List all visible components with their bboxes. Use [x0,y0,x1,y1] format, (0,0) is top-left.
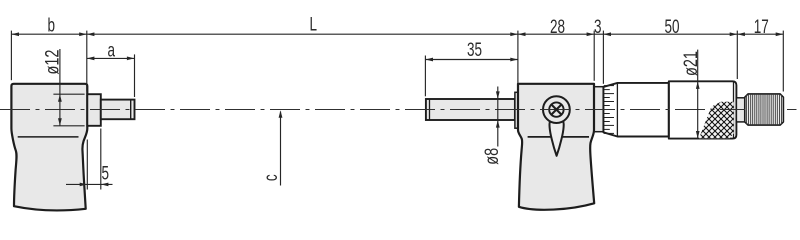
centerline [0,109,746,111]
dimension b line [11,33,86,35]
dimension a line [87,57,135,59]
frame hub with grip handle silhouette [518,84,594,210]
dimension dia12 line [59,49,61,126]
dimension dia21 line [697,50,699,139]
svg-text:ø21: ø21 [680,51,701,76]
lock screw phillips cross [552,105,560,113]
svg-text:35: 35 [467,39,482,61]
left anvil grip joint line [18,136,79,138]
dimension 3 extension line [602,31,604,84]
dimension 50 line [603,33,737,35]
ratchet stop body [745,94,784,125]
centerline right of ratchet [787,109,800,111]
dimension 35 extension line [424,56,426,97]
svg-text:17: 17 [754,16,769,38]
ratchet knurl lines [747,95,782,125]
spindle flange washer [515,92,518,128]
dimension 28 line [518,33,594,35]
lock screw inner circle [549,102,563,116]
dimension L line [87,33,518,35]
dimension 5 extension lines [86,140,88,190]
frame hub bottom edge [528,136,589,138]
spindle (dia 8) [426,99,515,120]
leader c line [280,112,282,186]
dimension L extension line right [517,31,519,90]
thimble with graduation bevel [603,83,668,137]
svg-text:a: a [107,39,115,61]
dimension 28 extension line [593,31,595,81]
dimension 3 line (chain) [594,33,603,35]
svg-text:5: 5 [102,162,110,184]
sleeve barrel [594,87,603,132]
spindle face ring line [429,100,431,120]
lock lever teardrop slot [549,119,563,156]
knurl section face ring line [733,82,735,138]
ratchet neck [736,98,744,122]
dimension 17 line [737,33,783,35]
thimble bevel junction line [616,83,618,136]
knurled ratchet sleeve section (dia 21) [669,81,737,138]
thimble graduation ticks [604,86,614,134]
dimension 5 line [66,183,113,185]
lock screw outer circle [543,96,570,123]
left anvil measuring rod [101,100,135,120]
left anvil step shaft (dia 12) [87,94,101,126]
left rod carbide face line [130,100,132,119]
dimension b extension lines [10,31,12,81]
svg-text:50: 50 [664,16,679,38]
dimension dia8 line [497,87,499,147]
dimension 35 line [425,59,518,61]
svg-text:ø12: ø12 [42,50,63,75]
svg-text:b: b [47,14,55,36]
svg-text:c: c [260,174,282,181]
svg-text:3: 3 [594,16,602,38]
left anvil body with grip handle silhouette [11,84,87,211]
dimension dia12 extension lines [53,93,84,95]
svg-text:28: 28 [550,16,565,38]
dimension 50 extension line [736,31,738,79]
svg-text:L: L [310,13,318,35]
dimension 17 extension line [782,31,784,92]
svg-text:ø8: ø8 [481,148,502,165]
dimension a extension line [134,54,136,97]
